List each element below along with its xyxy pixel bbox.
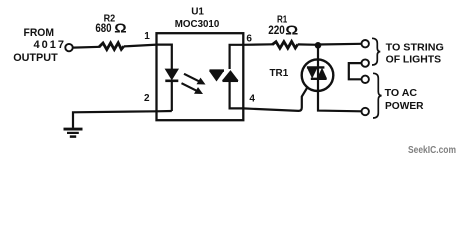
wire TR1 MT1 down to AC bus (318, 91, 361, 111)
light arrow upper (184, 74, 206, 85)
wire bracket T2 T3 (349, 63, 362, 79)
svg-text:SeekIC.com: SeekIC.com (408, 145, 456, 154)
input terminal (65, 44, 72, 51)
svg-text:6: 6 (246, 34, 252, 45)
node junction dot (315, 42, 322, 49)
photo-triac lower bar (223, 80, 239, 83)
triac TR1 left triangle (307, 68, 318, 79)
wire node to terminal T1 (318, 43, 361, 46)
brace lights (372, 38, 380, 65)
terminal T4 (362, 108, 369, 115)
svg-text:4: 4 (249, 93, 255, 104)
triac TR1 top bar (307, 66, 325, 68)
ground (64, 129, 83, 137)
triac TR1 right triangle (317, 68, 327, 79)
svg-text:1: 1 (144, 31, 150, 42)
label 680 ohms (95, 21, 126, 35)
wire pin4 to TR1 gate (243, 87, 307, 111)
terminal T3 (362, 76, 369, 83)
LED cathode bar (165, 80, 178, 83)
svg-text:Ω: Ω (114, 21, 126, 35)
terminal T1 (362, 40, 369, 47)
wire input terminal to R2 (73, 46, 100, 49)
wire LED cathode to pin 2 (171, 81, 173, 111)
svg-text:TO STRING: TO STRING (386, 42, 444, 54)
photo-triac left triangle (210, 71, 224, 81)
svg-text:220: 220 (268, 23, 285, 37)
optocoupler U1 box (157, 33, 244, 120)
label TO STRING OF LIGHTS (386, 42, 444, 66)
label 220 ohms (268, 23, 298, 37)
svg-text:TO AC: TO AC (385, 87, 418, 99)
label FROM 4017 OUTPUT (13, 27, 64, 64)
svg-text:OF LIGHTS: OF LIGHTS (386, 53, 442, 65)
svg-text:Ω: Ω (285, 23, 298, 37)
triac TR1 internal vertical (317, 60, 319, 92)
resistor R1 (272, 42, 298, 49)
resistor R2 (99, 43, 124, 50)
wire U1 pin1 internal to LED (157, 45, 172, 69)
triac TR1 body circle (302, 59, 334, 91)
LED anode triangle (165, 69, 178, 80)
light arrow lower (182, 83, 204, 94)
triac TR1 bottom bar (311, 78, 327, 80)
brace power (373, 73, 382, 118)
svg-text:680: 680 (95, 21, 111, 35)
label TO AC POWER (385, 87, 424, 112)
wire R2 to U1 pin 1 (124, 45, 157, 47)
svg-text:2: 2 (144, 93, 150, 104)
wire R1 to node (298, 43, 318, 46)
svg-text:POWER: POWER (385, 100, 424, 112)
svg-text:OUTPUT: OUTPUT (13, 52, 58, 64)
svg-text:TR1: TR1 (270, 67, 289, 79)
photo-triac right triangle (223, 71, 239, 81)
wire U1 pin6 internal to photo-triac (230, 45, 244, 69)
wire U1 pin6 to R1 (243, 43, 272, 46)
ground riser wire (73, 111, 172, 128)
svg-text:U1: U1 (191, 6, 204, 17)
photo-triac upper bar (210, 69, 225, 72)
svg-text:FROM: FROM (24, 27, 55, 39)
wire photo-triac to pin 4 (230, 81, 244, 109)
terminal T2 (362, 59, 369, 66)
wire node down to TR1 (317, 45, 319, 59)
svg-text:MOC3010: MOC3010 (175, 18, 220, 30)
